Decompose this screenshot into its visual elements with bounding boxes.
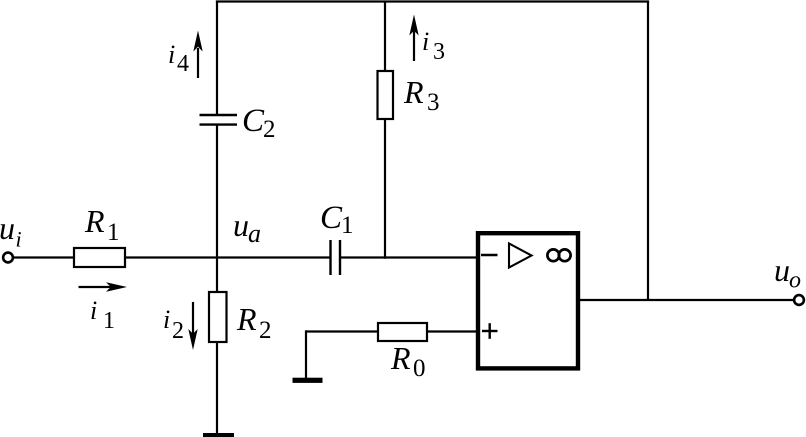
output terminal circle u_o bbox=[794, 295, 804, 305]
svg-text:i: i bbox=[16, 227, 22, 252]
label R0 bbox=[390, 340, 426, 382]
wire R0 ground drop bbox=[305, 330, 307, 378]
label u_o bbox=[774, 252, 801, 294]
ground (R0 branch) bbox=[293, 378, 323, 383]
wire ground to R0 bbox=[306, 330, 378, 332]
svg-text:2: 2 bbox=[263, 116, 276, 143]
wire R3 branch upper bbox=[384, 2, 386, 71]
svg-text:4: 4 bbox=[177, 51, 189, 77]
wire node ua to R2 bbox=[216, 258, 218, 293]
svg-text:0: 0 bbox=[413, 355, 426, 382]
wire input to R1 bbox=[13, 256, 74, 258]
label i4 bbox=[168, 40, 189, 77]
op-amp U1 bbox=[478, 233, 578, 368]
svg-text:u: u bbox=[774, 252, 790, 288]
svg-text:i: i bbox=[422, 27, 429, 56]
wire left vertical upper (node A to C2) bbox=[216, 1, 218, 116]
svg-text:3: 3 bbox=[433, 39, 445, 65]
ground (main, below R2) bbox=[203, 433, 234, 437]
svg-text:R: R bbox=[236, 301, 257, 337]
svg-text:2: 2 bbox=[259, 317, 272, 344]
wire R2 to ground bbox=[216, 342, 218, 434]
svg-text:i: i bbox=[90, 296, 97, 325]
capacitor C1 bbox=[331, 240, 341, 275]
svg-text:2: 2 bbox=[172, 318, 184, 344]
svg-text:R: R bbox=[390, 340, 411, 376]
svg-text:i: i bbox=[168, 40, 175, 69]
svg-text:R: R bbox=[403, 74, 424, 110]
arrow i2 bbox=[188, 302, 197, 350]
wire R3 branch lower bbox=[384, 119, 386, 259]
label i3 bbox=[422, 27, 445, 65]
wire left vertical lower (C2 to node ua) bbox=[216, 125, 218, 259]
arrow i3 bbox=[409, 15, 418, 62]
svg-text:C: C bbox=[320, 200, 343, 236]
label i1 bbox=[90, 296, 115, 334]
wire R0 to op-amp non-inverting input bbox=[427, 330, 477, 332]
label i2 bbox=[163, 305, 184, 344]
label C1 bbox=[320, 200, 354, 239]
svg-text:i: i bbox=[163, 305, 170, 334]
svg-text:u: u bbox=[0, 210, 15, 246]
arrow i4 bbox=[193, 31, 202, 79]
wire op-amp output bbox=[579, 299, 795, 301]
svg-text:1: 1 bbox=[107, 219, 120, 246]
svg-text:3: 3 bbox=[427, 89, 440, 116]
arrow i1 bbox=[79, 282, 128, 291]
label R2 bbox=[236, 301, 272, 344]
wire R1 to C1 bbox=[125, 256, 331, 258]
svg-text:u: u bbox=[233, 207, 249, 243]
resistor R3 bbox=[378, 71, 394, 119]
label C2 bbox=[242, 103, 276, 143]
resistor R1 bbox=[74, 248, 125, 267]
svg-text:1: 1 bbox=[341, 212, 354, 239]
svg-text:1: 1 bbox=[103, 308, 115, 334]
svg-text:C: C bbox=[242, 103, 265, 139]
input terminal circle u_i bbox=[3, 253, 13, 263]
svg-text:o: o bbox=[789, 268, 801, 294]
wire top horizontal bbox=[216, 0, 649, 2]
resistor R2 bbox=[209, 292, 227, 342]
label R3 bbox=[403, 74, 440, 116]
label u_a bbox=[233, 207, 261, 248]
resistor R0 bbox=[378, 323, 427, 341]
svg-text:R: R bbox=[84, 203, 105, 239]
wire C1 to op-amp inverting input bbox=[340, 256, 477, 258]
wire right vertical feedback bbox=[647, 1, 649, 301]
label u_i bbox=[0, 210, 22, 252]
capacitor C2 bbox=[200, 115, 238, 125]
svg-text:a: a bbox=[248, 219, 261, 248]
label R1 bbox=[84, 203, 120, 246]
